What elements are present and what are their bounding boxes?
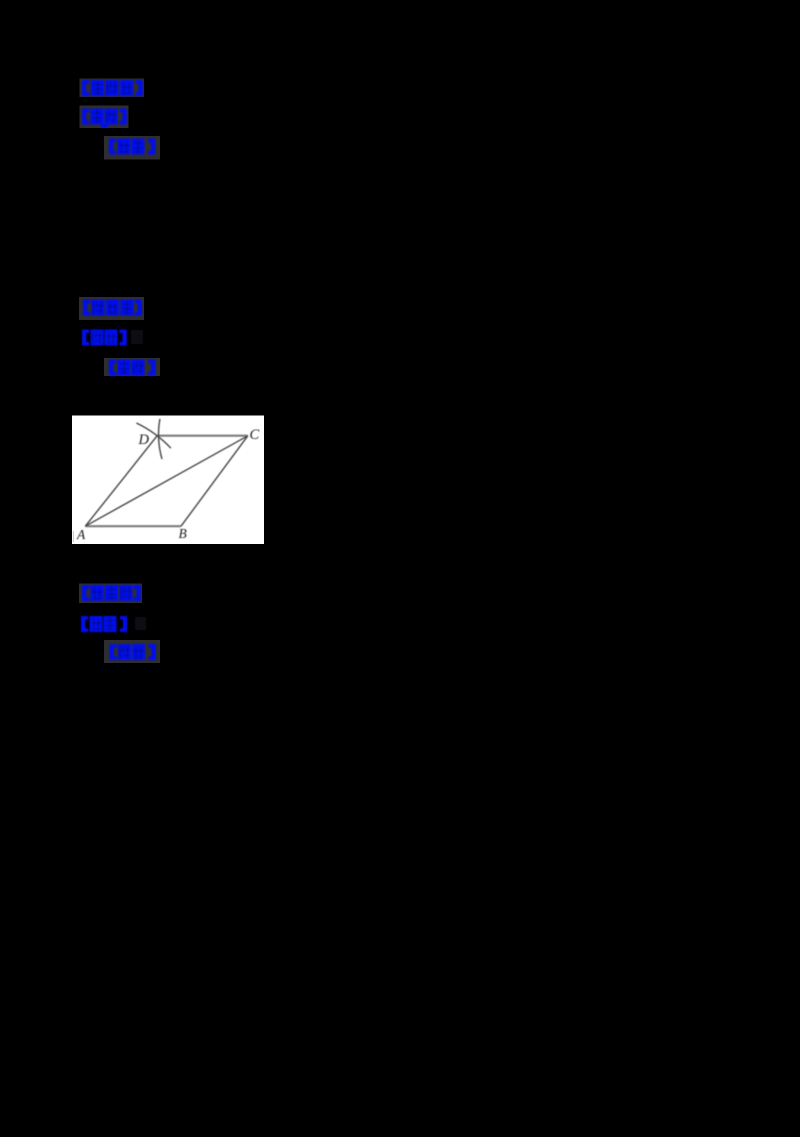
blue text [answer] line2 [82,330,127,346]
blue text [analysis] [110,644,156,660]
faint dark char after answer [131,330,143,344]
highlight box line2 [80,106,129,129]
highlight box line1 [79,297,144,320]
faint tick left of A [73,531,74,542]
blue text [answer] line2 [82,109,127,128]
side BC [181,436,248,526]
blue text [analysis] [109,360,155,376]
highlight box line1 [79,584,142,604]
side AD [85,436,157,527]
side AB [85,525,181,527]
highlight box line3 [104,640,160,663]
highlight box line3 [104,136,160,160]
highlight box line3 [104,358,160,376]
compass arc centered at A [136,423,171,448]
svg-text:A: A [76,527,86,542]
svg-text:C: C [250,427,260,443]
blue text [knowledge points] [83,300,142,316]
svg-text:D: D [138,432,150,448]
blue text [knowledge points] line1 [82,80,143,96]
faint dark char after answer [135,617,146,630]
side DC [157,435,248,437]
blue text [knowledge points] [82,585,141,601]
blue text [answer] line2 [81,616,127,632]
compass arc centered at C [159,419,162,459]
svg-text:B: B [179,526,187,541]
highlight box line1 [80,79,145,98]
white figure panel [72,416,264,545]
diagonal AC [85,436,248,526]
blue text [analysis] line3 [109,139,155,155]
